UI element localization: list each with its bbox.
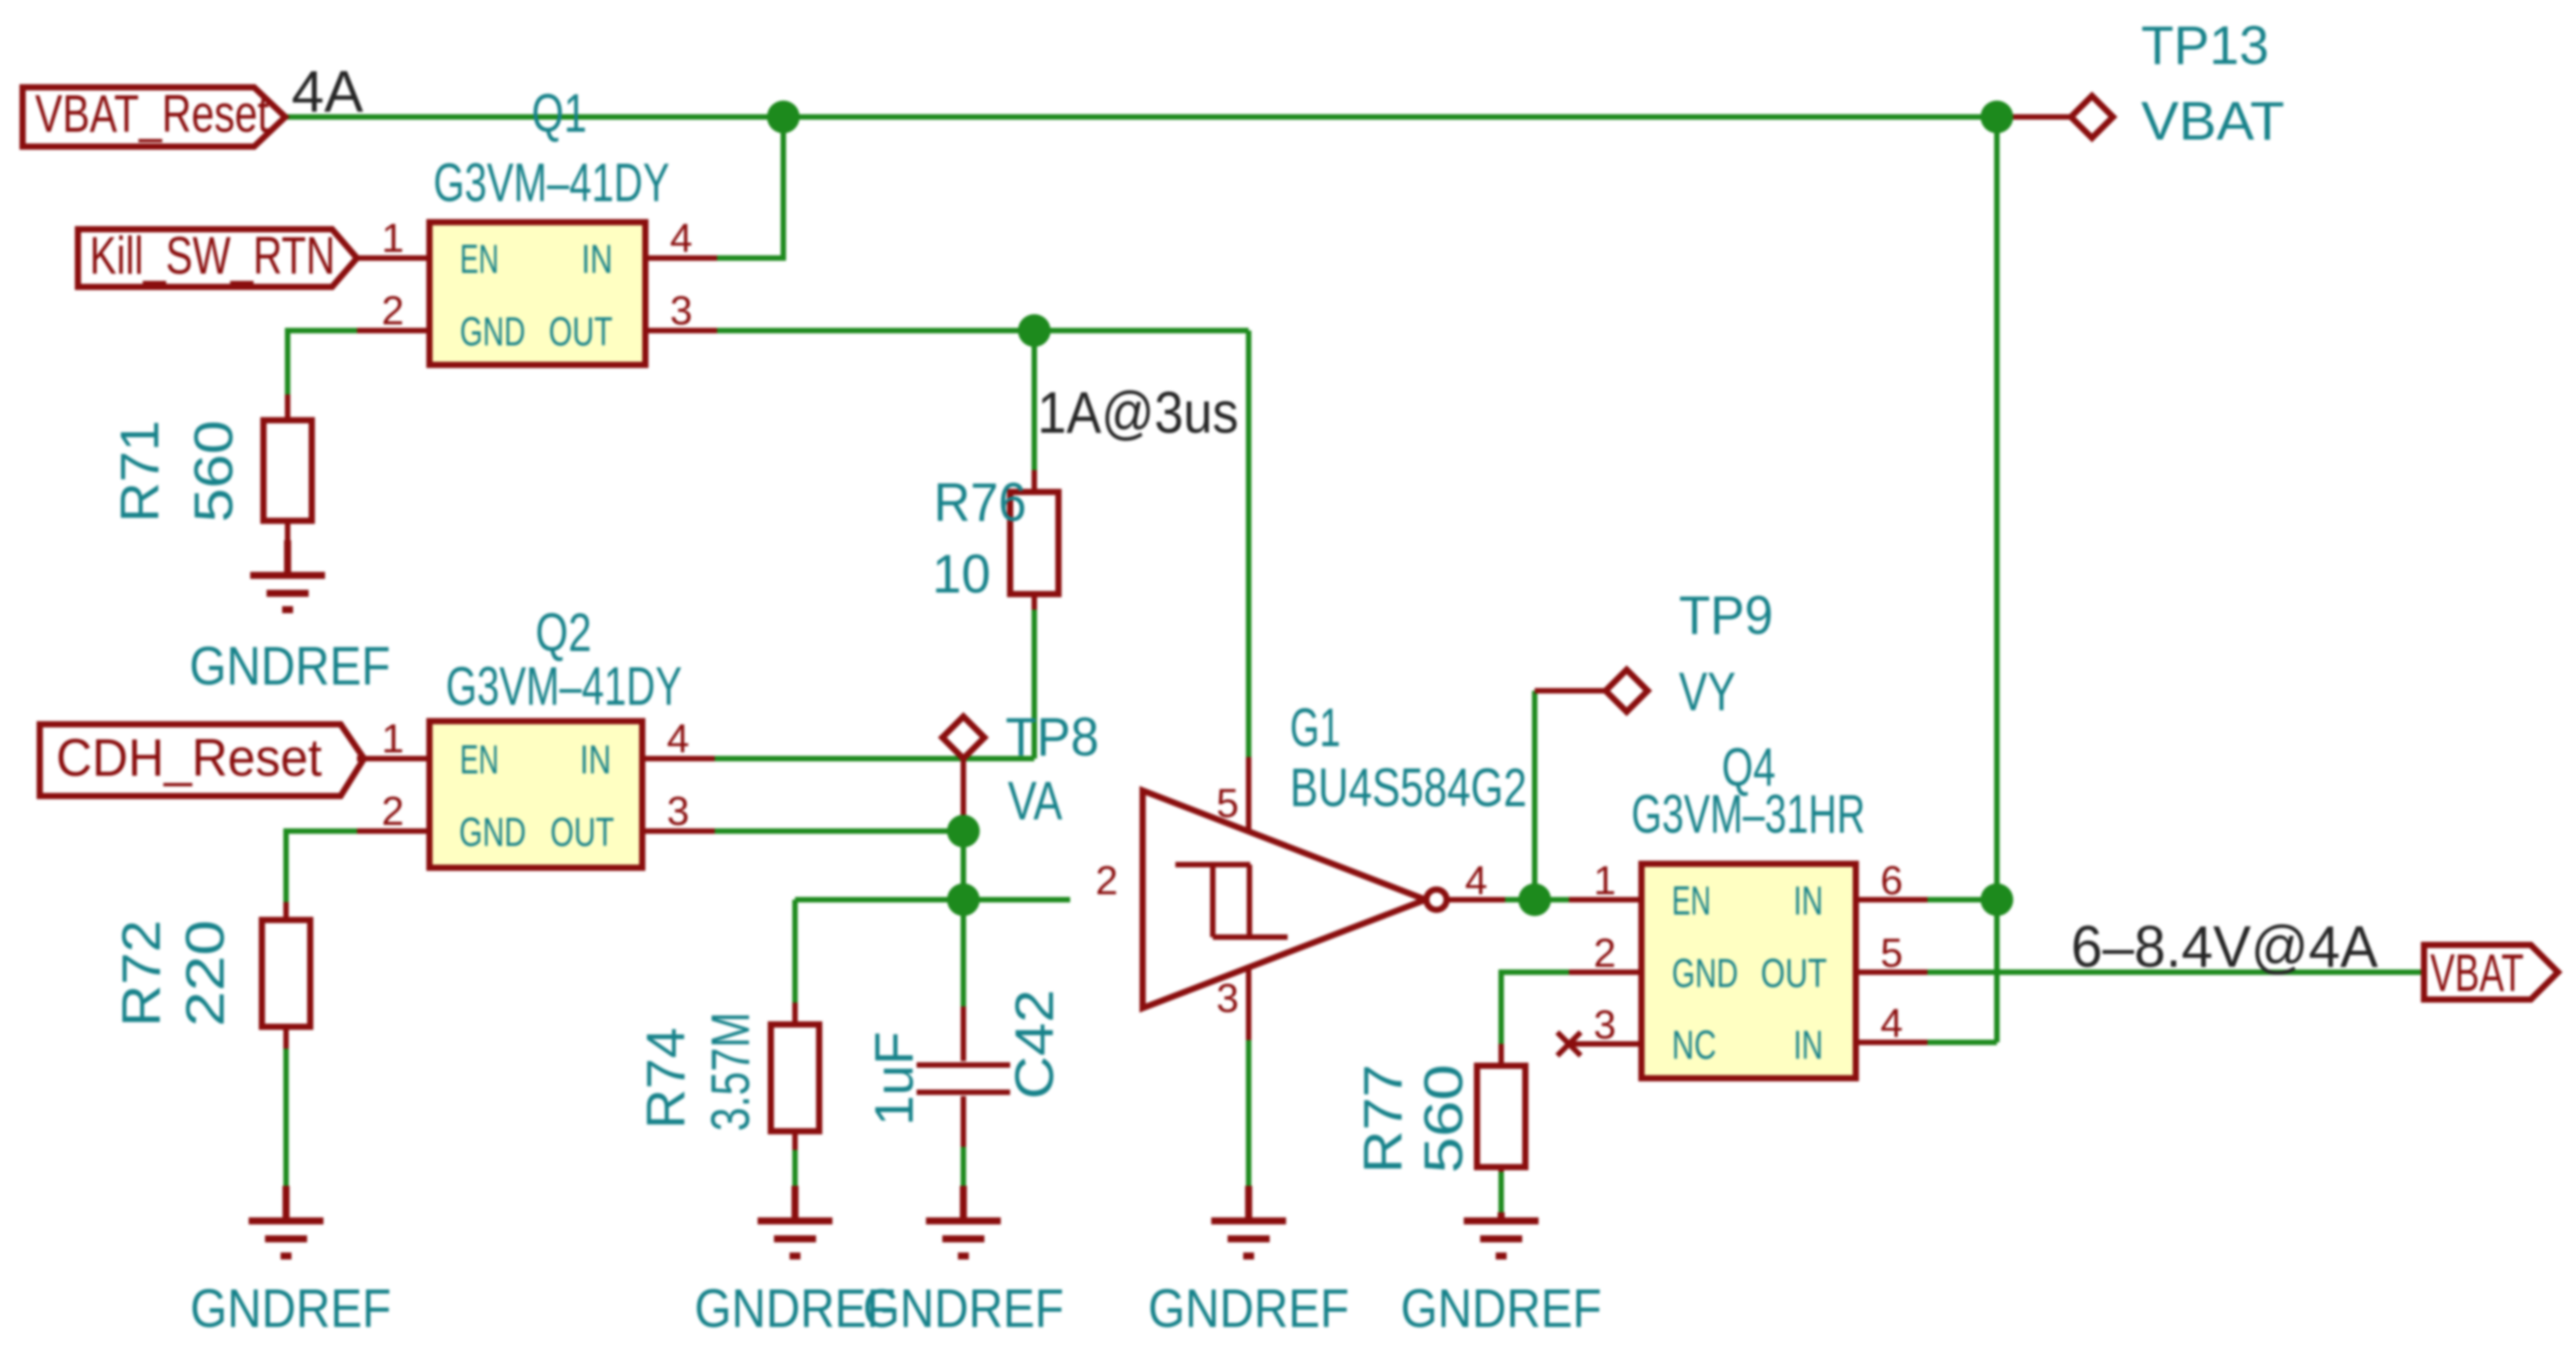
pin 4 Q2: [642, 756, 715, 762]
svg-text:R77: R77: [1352, 1064, 1413, 1173]
svg-text:IN: IN: [1793, 1023, 1823, 1068]
pin 5 Q4: [1856, 970, 1928, 975]
svg-text:4: 4: [670, 216, 693, 261]
svg-text:GNDREF: GNDREF: [1401, 1278, 1602, 1339]
pin 3 Q4 (NC): [1569, 1042, 1641, 1047]
opto relay Q1 body: [429, 222, 645, 365]
svg-text:EN: EN: [460, 738, 499, 783]
junction VA lower: [947, 883, 980, 916]
wire right vertical VBAT column: [1995, 117, 2000, 1042]
lead R72 bottom: [284, 1027, 289, 1049]
lead R77 bottom: [1499, 1167, 1504, 1172]
wire right column to Q4 pin4: [1928, 1040, 1997, 1045]
testpoint TP8 diamond: [942, 716, 984, 759]
svg-text:TP9: TP9: [1679, 585, 1773, 646]
svg-text:1: 1: [1594, 858, 1617, 904]
wire Q2 pin2 to R72: [286, 831, 357, 902]
svg-text:VBAT: VBAT: [2141, 90, 2284, 151]
resistor R76: [1010, 492, 1058, 594]
svg-text:VA: VA: [1008, 770, 1062, 831]
G1 inversion bubble: [1426, 890, 1447, 910]
svg-text:R74: R74: [635, 1028, 696, 1129]
svg-text:Q1: Q1: [532, 83, 587, 143]
resistor R72: [262, 920, 310, 1027]
svg-text:5: 5: [1217, 781, 1239, 826]
svg-text:2: 2: [382, 288, 405, 334]
svg-text:C42: C42: [1004, 989, 1065, 1099]
NC cross mark: [1557, 1032, 1581, 1056]
capacitor C42: [917, 1065, 1010, 1092]
hierarchical label Kill_SW_RTN: [78, 229, 357, 287]
wire Q4 pin5 OUT to VBAT label: [1928, 970, 2424, 975]
svg-text:TP8: TP8: [1005, 706, 1099, 767]
svg-text:IN: IN: [1793, 879, 1823, 924]
wire Q2 OUT to VA junction: [715, 829, 963, 834]
pin 3 G1: [1246, 968, 1252, 1040]
G1 hysteresis symbol: [1175, 865, 1288, 937]
pin 4 Q4: [1856, 1040, 1928, 1045]
pin 2 Q1: [357, 328, 429, 334]
svg-text:R76: R76: [934, 472, 1027, 532]
lead R74 top: [793, 1003, 798, 1024]
svg-text:4: 4: [1465, 858, 1488, 904]
wire C42 bottom to ground: [961, 1147, 966, 1186]
svg-text:OUT: OUT: [550, 810, 614, 855]
pin 5 G1: [1246, 757, 1252, 831]
pin 6 Q4: [1856, 897, 1928, 903]
svg-text:2: 2: [1594, 931, 1617, 976]
lead R77 top: [1499, 1044, 1504, 1066]
svg-text:GNDREF: GNDREF: [189, 635, 390, 696]
pin 1 Q2: [357, 756, 429, 762]
svg-text:GND: GND: [1672, 951, 1738, 996]
pin TP8: [961, 759, 966, 831]
svg-text:6: 6: [1881, 858, 1903, 904]
svg-text:1uF: 1uF: [864, 1031, 924, 1126]
wire C42 column: [961, 900, 966, 1007]
wire vertical into G1 pin 5: [1246, 331, 1252, 757]
svg-text:3: 3: [1594, 1003, 1617, 1048]
pin 3 Q2: [642, 829, 715, 834]
pin TP13: [1997, 115, 2071, 120]
wire Q1 OUT to G1 pin5 column: [715, 328, 1249, 334]
resistor R74: [771, 1024, 819, 1131]
ground GNDREF under R77: [1464, 1212, 1539, 1256]
wire R74 bottom to ground: [793, 1150, 798, 1186]
lead C42 top: [961, 1007, 966, 1061]
svg-text:G1: G1: [1290, 697, 1341, 758]
svg-text:Kill_SW_RTN: Kill_SW_RTN: [90, 226, 335, 285]
svg-text:GND: GND: [460, 310, 525, 355]
svg-text:GNDREF: GNDREF: [1148, 1278, 1349, 1339]
resistor R71: [263, 420, 312, 521]
pin 4 Q1: [645, 256, 717, 261]
svg-text:GND: GND: [459, 810, 526, 855]
junction top right TP13: [1981, 101, 2013, 133]
ground GNDREF under C42: [926, 1186, 1001, 1256]
ground GNDREF under G1: [1211, 1186, 1286, 1256]
ground GNDREF under R72: [249, 1186, 323, 1256]
svg-text:IN: IN: [581, 237, 613, 282]
lead R71 bottom: [285, 521, 291, 575]
wire G1 pin3 to ground: [1246, 1040, 1252, 1186]
svg-text:560: 560: [1413, 1064, 1474, 1173]
pin 2 Q2: [357, 829, 429, 834]
lead R74 bottom: [793, 1131, 798, 1150]
lead R76 top: [1032, 470, 1037, 492]
testpoint TP9 diamond: [1606, 670, 1648, 712]
wire Q1 pin2 to R71: [288, 331, 357, 394]
svg-text:IN: IN: [580, 738, 611, 783]
ground GNDREF under R74: [758, 1186, 832, 1256]
svg-text:1A@3us: 1A@3us: [1037, 380, 1239, 445]
pin 3 Q1: [645, 328, 717, 334]
resistor R77: [1477, 1066, 1525, 1167]
lead R71 top: [285, 394, 291, 420]
pin 4 G1: [1447, 897, 1505, 903]
svg-text:OUT: OUT: [549, 310, 613, 355]
svg-text:NC: NC: [1672, 1023, 1716, 1068]
svg-text:2: 2: [1096, 858, 1118, 904]
svg-text:TP13: TP13: [2141, 15, 2269, 76]
hierarchical label VBAT_Reset: [23, 87, 285, 147]
wire junction to R76 top: [1032, 331, 1037, 470]
junction G1 out: [1518, 883, 1551, 916]
svg-text:VBAT_Reset: VBAT_Reset: [35, 84, 269, 143]
pin TP9: [1535, 688, 1606, 694]
svg-text:1: 1: [382, 716, 405, 762]
svg-text:5: 5: [1881, 931, 1903, 976]
svg-text:4: 4: [667, 716, 690, 762]
lead R76 bottom: [1032, 594, 1037, 610]
svg-text:220: 220: [175, 920, 235, 1027]
pin 2 Q4: [1569, 970, 1641, 975]
svg-text:OUT: OUT: [1761, 951, 1827, 996]
junction R76 top: [1018, 314, 1051, 347]
svg-text:3: 3: [667, 789, 690, 834]
svg-text:Q2: Q2: [535, 602, 592, 663]
svg-text:EN: EN: [460, 237, 499, 282]
svg-text:3.57M: 3.57M: [700, 1012, 761, 1131]
svg-text:G3VM–31HR: G3VM–31HR: [1631, 784, 1865, 844]
wire R77 bottom to ground: [1499, 1172, 1504, 1212]
wire Q4 pin2 to R77: [1501, 972, 1569, 1044]
svg-text:CDH_Reset: CDH_Reset: [56, 728, 322, 787]
junction VA upper: [947, 815, 980, 847]
junction Q4 pin6: [1981, 883, 2013, 916]
wire top net drop to Q1 pin4: [715, 117, 783, 258]
hierarchical label VBAT (output): [2424, 945, 2558, 999]
opto relay Q2 body: [429, 721, 642, 868]
svg-text:4: 4: [1881, 1001, 1903, 1046]
wire VA junction down: [961, 831, 966, 900]
svg-text:R71: R71: [109, 420, 170, 522]
svg-text:G3VM–41DY: G3VM–41DY: [446, 656, 682, 716]
lead R72 top: [284, 902, 289, 920]
ground GNDREF under R71: [250, 540, 325, 610]
svg-text:GNDREF: GNDREF: [190, 1278, 391, 1339]
svg-text:VBAT: VBAT: [2430, 943, 2524, 1003]
wire TP9 column: [1532, 691, 1538, 900]
opto relay Q4 body: [1641, 864, 1856, 1078]
svg-text:GNDREF: GNDREF: [863, 1278, 1064, 1339]
lead C42 bottom: [961, 1096, 966, 1147]
svg-text:G3VM–41DY: G3VM–41DY: [433, 152, 670, 213]
testpoint TP13 diamond: [2071, 96, 2113, 138]
svg-text:EN: EN: [1672, 879, 1711, 924]
junction top at Q1 drop: [767, 101, 800, 133]
svg-text:6–8.4V@4A: 6–8.4V@4A: [2071, 914, 2378, 979]
pin 1 Q4: [1569, 897, 1641, 903]
svg-text:1: 1: [382, 216, 405, 261]
svg-text:BU4S584G2: BU4S584G2: [1290, 757, 1527, 818]
wire R72 bottom to ground: [284, 1049, 289, 1186]
wire G1 output to Q4 pin1: [1505, 897, 1569, 903]
wire VBAT_Reset to TP13 (top net): [285, 115, 1997, 120]
svg-text:10: 10: [932, 543, 991, 604]
hierarchical label CDH_Reset: [40, 724, 364, 796]
wire VA row R74 to G1 pin2: [795, 897, 1070, 903]
wire Q4 pin6 to right column: [1928, 897, 1997, 903]
svg-text:3: 3: [670, 288, 693, 334]
svg-text:3: 3: [1217, 976, 1239, 1021]
wire TP8 row to Q2 pin4: [715, 756, 1034, 762]
pin 1 Q1: [357, 256, 429, 261]
svg-text:2: 2: [382, 789, 405, 834]
svg-text:VY: VY: [1679, 661, 1736, 722]
svg-text:4A: 4A: [292, 58, 363, 124]
wire R76 bottom to TP8 row: [1032, 610, 1037, 759]
svg-text:560: 560: [183, 420, 244, 522]
wire R74 column: [793, 900, 798, 1003]
svg-text:R72: R72: [111, 920, 171, 1027]
schmitt inverter G1 triangle: [1143, 791, 1426, 1008]
